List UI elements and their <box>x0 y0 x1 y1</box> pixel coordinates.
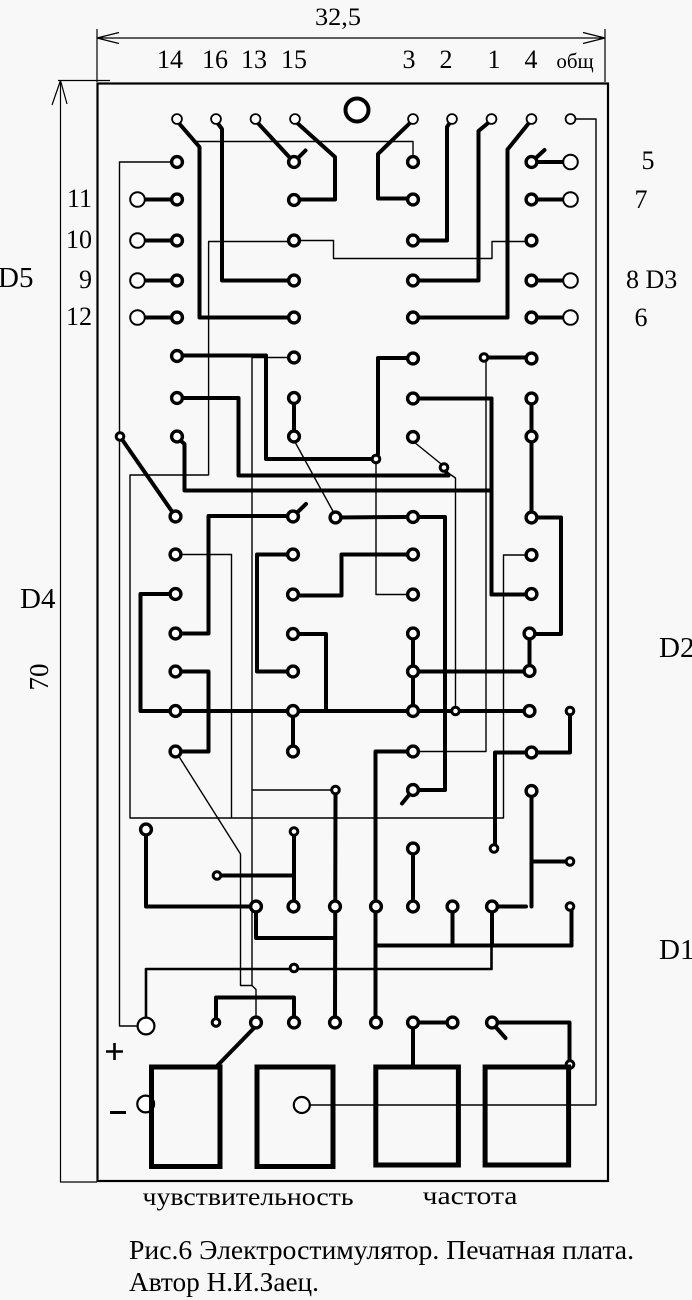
via (444,467.5) <box>440 464 448 472</box>
pad (531.5,199.5) <box>526 194 537 205</box>
pad (294,200) <box>289 195 300 206</box>
trace via (484,357) to pad (531,358) <box>489 356 526 360</box>
trace pads (413,1022)-(452,1022) <box>419 1021 447 1025</box>
svg-text:1: 1 <box>488 45 501 74</box>
trace pad (256,906) to net x335 <box>256 911 335 938</box>
contact block 4 (frequency) <box>485 1067 568 1165</box>
trace pad (413,358) to via (376,459) <box>378 358 407 454</box>
pad (413,437) <box>408 432 419 443</box>
pad (175.5,594) <box>170 589 181 600</box>
trace pad (492,1022) to contact block 4 corner <box>497 1023 570 1061</box>
wire pad (177,162) to plus terminal <box>120 162 172 1026</box>
svg-text:D5: D5 <box>0 262 33 294</box>
trace pin3 to pad (413,199) <box>378 121 412 199</box>
via (570,711) <box>566 707 574 715</box>
via (494,848.5) <box>490 845 498 853</box>
terminal ring (570.5,199.5) <box>563 192 578 207</box>
terminal ring (137.5,317.5) <box>130 310 145 325</box>
pad (531.5,752.5) <box>526 747 537 758</box>
pad (294,317.5) <box>289 312 300 323</box>
trace pads (413,671)-(529,671) <box>419 670 524 674</box>
pad (177,398) <box>172 393 183 404</box>
trace bus x491 vertical <box>490 399 494 595</box>
trace link row6 <box>532 316 565 320</box>
solder tick on pad (294,162) <box>294 151 306 163</box>
pad (529.5,633.5) <box>524 628 535 639</box>
pad (175.5,516.5) <box>170 511 181 522</box>
pad (529.5,711) <box>524 706 535 717</box>
pad (413,317.5) <box>408 312 419 323</box>
jumper diagonal (120,436)-(175,516) <box>120 437 176 517</box>
pad (177,162) <box>172 157 183 168</box>
terminal ring (570.5,317.5) <box>563 310 578 325</box>
trace pad (413,751) to pad (376,1022) <box>376 752 408 1018</box>
pad (529.5,671) <box>524 666 535 677</box>
connector pin (413,119) <box>408 114 418 124</box>
pad (413,671.5) <box>408 666 419 677</box>
pad (177,240.5) <box>172 235 183 246</box>
pad (177,436.5) <box>172 431 183 442</box>
connector pin (255.5,119) <box>251 114 261 124</box>
trace pad (531,752) to via (494,848) <box>495 753 526 845</box>
wire pad (294,240) to pad (531,555) <box>130 242 526 819</box>
via (120,436.5) <box>116 433 124 441</box>
trace pad (146,829) to pad (256,906) <box>146 834 250 907</box>
pad (175.5,633.5) <box>170 628 181 639</box>
svg-text:4: 4 <box>525 45 538 74</box>
trace bus y945 to via (570,906) <box>570 911 574 946</box>
trace pin15 to pad (294,200) <box>295 121 335 200</box>
plus terminal label <box>106 1043 123 1060</box>
pad (175.5,751.5) <box>170 746 181 757</box>
via (570,1064.5) <box>566 1061 574 1069</box>
wire branch to via (335,790) <box>252 789 331 791</box>
svg-text:8 D3: 8 D3 <box>626 265 677 294</box>
wire pad (175,554) down to y818 <box>181 555 232 819</box>
terminal ring (570.5,162) <box>563 155 578 170</box>
trace pad (531,791) down to row 906 <box>530 796 534 907</box>
connector pin (177,119) <box>172 114 182 124</box>
trace D5 pin11 link <box>138 198 172 202</box>
pad (293,594.5) <box>288 589 299 600</box>
via (455.5,711) <box>452 707 460 715</box>
trace via (294,831) to pad (294,906) <box>292 836 296 901</box>
pad (413,751.5) <box>408 746 419 757</box>
svg-text:D2: D2 <box>659 632 692 664</box>
pad (293,554.5) <box>288 549 299 560</box>
trace pad (293,634) riser to bus y711 <box>293 634 326 711</box>
svg-text:15: 15 <box>281 45 307 74</box>
pad (413,240.5) <box>408 235 419 246</box>
trace pad (175,594) U to pad (175,711) <box>141 594 176 711</box>
pad (413,711) <box>408 706 419 717</box>
connector pin (452,119) <box>447 114 457 124</box>
svg-text:14: 14 <box>157 45 183 74</box>
trace pin13 to pad (294,162) <box>256 121 292 160</box>
dimension line 32,5 <box>97 29 605 82</box>
pad (413,906.5) <box>408 901 419 912</box>
pad (492,1022.5) <box>487 1017 498 1028</box>
pad (177,199.5) <box>172 194 183 205</box>
trace pin16 to pad (294,280) <box>216 121 288 281</box>
pad (175.5,711) <box>170 706 181 717</box>
trace pad (531,517) U to pad (529,634) <box>532 518 562 635</box>
pad (293,634) <box>288 629 299 640</box>
svg-text:32,5: 32,5 <box>315 4 361 31</box>
connector pin (570.5,119) <box>566 114 576 124</box>
pad (492,906.5) <box>487 901 498 912</box>
trace pad (177,398) to via (444,467) <box>177 398 449 476</box>
svg-text:9: 9 <box>79 265 92 294</box>
trace pads (413,848)-(413,906) <box>411 853 415 901</box>
wire pad (413,751) to via (484,357) <box>417 361 486 752</box>
trace pin2 to pad (413,240) <box>419 121 451 241</box>
pad (531.5,398.5) <box>526 393 537 404</box>
trace pad (492,906) stub to bus y945 <box>490 911 494 946</box>
svg-text:7: 7 <box>635 185 648 214</box>
via (294,831.5) <box>290 828 298 836</box>
pad (294,357.5) <box>289 352 300 363</box>
wire pad (294,240) to pad (531,240) <box>288 241 526 259</box>
pad (256,906.5) <box>251 901 262 912</box>
jumper diagonal pad (256,1022) to contact block 1 <box>217 1026 256 1066</box>
dimension line 70 <box>52 81 110 1183</box>
trace pad (177,356) to via (376,459) <box>177 356 371 460</box>
pad (413,280.5) <box>408 275 419 286</box>
wire via (376,459) to pad (413,594) <box>376 463 407 595</box>
pad (531.5,594) <box>526 589 537 600</box>
pad (293,671.5) <box>288 666 299 677</box>
svg-text:10: 10 <box>66 225 92 254</box>
pad (413,199.5) <box>408 194 419 205</box>
pad (175.5,554.5) <box>170 549 181 560</box>
svg-text:11: 11 <box>67 184 92 213</box>
trace pads (294,398)-(294,436) <box>292 398 296 437</box>
pad (294,436.5) <box>289 431 300 442</box>
pad (293,751.5) <box>288 746 299 757</box>
trace pad (413,517) to pad (413,790) <box>418 517 445 790</box>
trace D5 pin12 link <box>138 316 172 320</box>
pad (531.5,162) <box>526 157 537 168</box>
pad (531.5,358.5) <box>526 353 537 364</box>
pad (294,1022.5) <box>289 1017 300 1028</box>
via (217,875.5) <box>213 872 221 880</box>
trace pads (335,517)-(413,517) <box>336 515 408 520</box>
trace bus y711 <box>176 709 530 713</box>
pad (452.5,906.5) <box>447 901 458 912</box>
trace pad (413,1022) to contact block 3 <box>411 1028 415 1067</box>
contact block 3 (frequency) <box>376 1067 459 1165</box>
solder tick on pad (413,790) <box>402 790 413 804</box>
pad (413,398.5) <box>408 393 419 404</box>
pad (531.5,436.5) <box>526 431 537 442</box>
pad (413,517) <box>408 512 419 523</box>
wire via (444,467) to via (455,711) <box>444 470 456 707</box>
trace link row8 <box>532 279 565 283</box>
svg-text:5: 5 <box>642 146 655 175</box>
pad (413,848.5) <box>408 843 419 854</box>
svg-text:общ: общ <box>556 49 593 73</box>
via (570,861.5) <box>566 858 574 866</box>
trace pin1 to pad (413,280) <box>419 121 491 281</box>
via (570,906.5) <box>566 903 574 911</box>
via (294,968) <box>290 964 298 972</box>
pad (293.5,906.5) <box>288 901 299 912</box>
connector pin (216,119) <box>211 114 221 124</box>
solder tick on pad (293,516) <box>293 504 306 517</box>
contact block 2 (sensitivity) <box>257 1067 333 1167</box>
pad (294,280.5) <box>289 275 300 286</box>
svg-text:16: 16 <box>202 45 228 74</box>
pad (531.5,317.5) <box>526 312 537 323</box>
svg-text:70: 70 <box>24 664 54 691</box>
pad (293,711) <box>288 706 299 717</box>
pad (413,1022.5) <box>408 1017 419 1028</box>
pad (335,906.5) <box>330 901 341 912</box>
pad (177,280.5) <box>172 275 183 286</box>
contact block 1 (sensitivity) <box>152 1067 221 1167</box>
connector pin (295,119) <box>290 114 300 124</box>
trace via (217,875) to net x294 <box>222 874 294 878</box>
svg-text:2: 2 <box>440 45 453 74</box>
minus terminal label <box>110 1111 126 1114</box>
pad (294,398) <box>289 393 300 404</box>
trace pad (177,437) riser to bus x491 <box>177 438 492 491</box>
pad (175.5,671.5) <box>170 666 181 677</box>
trace pads (531,398)-(531,517) <box>530 399 534 518</box>
pad (413,633.5) <box>408 628 419 639</box>
trace pad (452,906) stub to bus y945 <box>451 911 455 946</box>
via (484,357.5) <box>480 354 488 362</box>
pad (294,162) <box>289 157 300 168</box>
solder tick on pad (531,162) <box>532 150 545 162</box>
pad (376,1022.5) <box>371 1017 382 1028</box>
wire diagonal pad (413,437) to via (444,467) <box>414 442 443 466</box>
trace via (335,790) to pad (335,1022) <box>333 795 338 1017</box>
trace pad (413,554) to pad (293,594) <box>299 555 407 596</box>
trace via (216,1022) U to pad (294,1022) <box>216 998 294 1018</box>
trace D5 pin10 link <box>138 239 172 243</box>
via (376,459) <box>372 455 380 463</box>
trace link row7 <box>532 198 565 202</box>
svg-text:чувствительность: чувствительность <box>143 1184 354 1211</box>
trace pads (175,671)/(175,751) risers <box>176 672 209 752</box>
svg-text:6: 6 <box>635 303 648 332</box>
plus terminal hole <box>138 1018 155 1035</box>
svg-text:D4: D4 <box>20 583 56 615</box>
pad (531.5,240.5) <box>526 235 537 246</box>
trace pin4 to pad (413,317) <box>419 121 531 318</box>
svg-text:частота: частота <box>423 1183 518 1210</box>
board outline <box>98 84 609 1182</box>
via (216,1022.5) <box>212 1019 220 1027</box>
trace branch to via (570,861) <box>532 860 566 864</box>
wire obshchiy pin to block 2 terminal <box>310 119 596 1105</box>
pad (177,356) <box>172 351 183 362</box>
pad (335,1022.5) <box>330 1017 341 1028</box>
trace bus to pad (531,594) <box>492 593 527 597</box>
trace bus to pad (413,398) <box>419 397 492 401</box>
pad (452.5,1022.5) <box>447 1017 458 1028</box>
trace pads (293,711)-(293,751) <box>291 716 295 746</box>
trace pads (529,633)-(529,671) <box>528 634 532 672</box>
trace plus terminal to pad (492,906) <box>146 945 492 1021</box>
connector pin (491.5,119) <box>487 114 497 124</box>
pad (146,829.5) <box>141 824 152 835</box>
pad (293,516.5) <box>288 511 299 522</box>
wire diagonal from pad (175,751) <box>178 755 252 986</box>
trace pads (413,633)-(413,711) <box>411 634 415 712</box>
connector pin (531.5,119) <box>527 114 537 124</box>
svg-text:3: 3 <box>403 45 416 74</box>
wire diagonal pad (294,436) to pad (335,517) <box>295 442 335 514</box>
via (335.5,790) <box>332 786 340 794</box>
pad (335.5,517.5) <box>330 512 341 523</box>
pad (531.5,791) <box>526 786 537 797</box>
trace pad (492,906) to pad (531,906) <box>497 905 526 909</box>
trace pad (175,633) to pad (293,516) <box>176 516 288 634</box>
mounting hole <box>346 99 369 122</box>
solder tick on pad (492,1022) <box>493 1024 506 1038</box>
pad (531.5,555) <box>526 550 537 561</box>
terminal ring (570.5,280.5) <box>563 273 578 288</box>
trace pad (531,752) to via (570,711) <box>537 717 570 753</box>
wire pin14 net to pad (413,162) <box>196 142 413 158</box>
trace D5 pin9 link <box>138 279 172 283</box>
terminal ring (137.5,240.5) <box>130 233 145 248</box>
wire pad (294,357) to pad (256,1022) <box>252 358 288 1018</box>
pad (413,554.5) <box>408 549 419 560</box>
block2 terminal hole <box>294 1097 310 1113</box>
svg-text:Автор Н.И.Заец.: Автор Н.И.Заец. <box>129 1267 319 1297</box>
trace pad (293,554) U to pad (293,671) <box>257 555 287 672</box>
minus terminal hole <box>137 1096 154 1113</box>
trace link row5 <box>532 160 565 164</box>
pad (376,906.5) <box>371 901 382 912</box>
pad (177,317.5) <box>172 312 183 323</box>
pad (294,240.5) <box>289 235 300 246</box>
pad (413,162) <box>408 157 419 168</box>
terminal ring (137.5,280.5) <box>130 273 145 288</box>
svg-text:12: 12 <box>66 302 92 331</box>
pad (531.5,280.5) <box>526 275 537 286</box>
svg-text:D1: D1 <box>659 934 692 966</box>
trace pin14 to pad (294,317) <box>177 121 288 318</box>
pad (413,790) <box>408 785 419 796</box>
pad (413,594.5) <box>408 589 419 600</box>
pad (413,358.5) <box>408 353 419 364</box>
svg-text:13: 13 <box>241 45 267 74</box>
terminal ring (137.5,199.5) <box>130 192 145 207</box>
svg-text:Рис.6 Электростимулятор. Печат: Рис.6 Электростимулятор. Печатная плата. <box>129 1235 634 1265</box>
pad (256,1022.5) <box>251 1017 262 1028</box>
trace bus y945 <box>376 944 572 948</box>
pad (531.5,517.5) <box>526 512 537 523</box>
